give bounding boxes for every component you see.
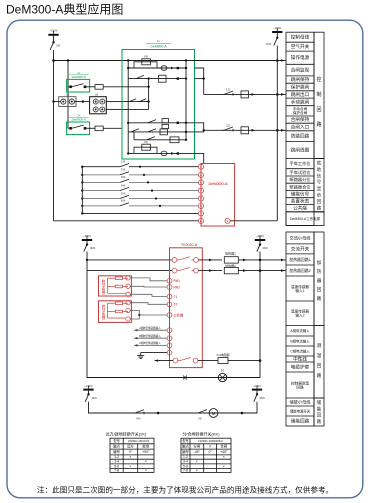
svg-text:5XK: 5XK — [121, 192, 126, 195]
contact + relays row D — [128, 122, 194, 124]
svg-text:中性线: 中性线 — [293, 356, 307, 363]
svg-text:LW39C-16D0404/3: LW39C-16D0404/3 — [198, 439, 223, 443]
node group: energy storage circuit — [314, 398, 324, 426]
svg-text:DK: DK — [57, 44, 61, 48]
relay contact K3 (resistor row) — [173, 358, 178, 363]
node group: heater circuit — [314, 232, 324, 325]
wire exit to red box — [195, 153, 204, 163]
svg-text:1-2: 1-2 — [114, 455, 119, 459]
svg-text:B相电流输入: B相电流输入 — [290, 339, 310, 344]
svg-text:型号: 型号 — [113, 438, 119, 443]
svg-text:控制母线: 控制母线 — [291, 34, 310, 41]
switch QF — [52, 41, 54, 43]
svg-text:3-4: 3-4 — [183, 460, 188, 464]
svg-text:储能电源开关: 储能电源开关 — [290, 409, 311, 414]
contacts row E — [128, 131, 194, 133]
ground — [140, 353, 142, 356]
svg-text:合闸保持: 合闸保持 — [291, 116, 310, 123]
svg-text:6XK: 6XK — [121, 200, 126, 203]
wire out left — [155, 360, 174, 362]
svg-text:分闸: 分闸 — [193, 444, 200, 449]
wire lamp row — [87, 376, 260, 378]
contact KM — [133, 412, 135, 414]
svg-text:就地: 就地 — [142, 444, 149, 449]
svg-text:1D: 1D — [66, 94, 69, 97]
svg-text:加热器回路1: 加热器回路1 — [289, 257, 311, 262]
svg-text:测: 测 — [317, 342, 322, 349]
svg-text:1B: 1B — [95, 94, 98, 97]
svg-text:编号: 编号 — [113, 449, 120, 454]
contacts row y101.6 — [122, 101, 149, 103]
svg-text:显: 显 — [317, 186, 322, 191]
svg-text:手车工作位: 手车工作位 — [290, 160, 311, 167]
pin 4 — [198, 188, 203, 193]
switch 3DK — [86, 243, 88, 245]
svg-text:触点: 触点 — [182, 444, 189, 449]
svg-text:分/合闸转换开关(KK): 分/合闸转换开关(KK) — [182, 430, 220, 436]
contact + coil row B — [128, 78, 186, 80]
svg-text:路: 路 — [317, 295, 322, 302]
relay row 2ZJ y130.3 — [204, 129, 278, 131]
wire: section2 left rail — [86, 252, 88, 377]
pin A-in — [167, 328, 172, 333]
svg-text:C相B型传感器输入: C相B型传感器输入 — [139, 341, 161, 345]
svg-text:2ZJ: 2ZJ — [226, 123, 231, 127]
wire sensor1 a — [130, 278, 167, 281]
svg-text:DeM300-A工作电源: DeM300-A工作电源 — [290, 216, 320, 221]
svg-text:编号: 编号 — [182, 449, 189, 454]
svg-text:×: × — [223, 455, 225, 459]
wire row y86.8 — [122, 86, 149, 88]
svg-text:公共端: 公共端 — [293, 205, 307, 212]
switch 2DK — [259, 243, 261, 245]
svg-text:电缆护套: 电缆护套 — [291, 364, 310, 371]
svg-text:KM: KM — [144, 56, 148, 59]
svg-text:防跳回路: 防跳回路 — [291, 133, 310, 140]
svg-text:D1: D1 — [221, 369, 225, 373]
wire stub right of green box (lower) — [195, 123, 204, 132]
wire — [53, 36, 55, 42]
svg-text:RH1: RH1 — [174, 279, 181, 283]
node terminal table 1 — [286, 32, 314, 225]
svg-text:控: 控 — [316, 76, 321, 83]
svg-text:路: 路 — [316, 121, 321, 128]
wire bundle vertical x82.3 — [81, 167, 83, 214]
wire: sub vertical x68 — [67, 61, 69, 129]
pin T1 — [167, 294, 172, 299]
svg-text:7-8: 7-8 — [183, 469, 188, 473]
node group: temperature circuit — [314, 325, 324, 398]
motor M — [209, 409, 218, 418]
contact S1 — [120, 164, 129, 167]
pin 6 — [198, 203, 203, 208]
wire row y109.4 — [122, 108, 149, 110]
svg-text:注：此图只是二次图的一部分，主要为了体现我公司产品的用途及接: 注：此图只是二次图的一部分，主要为了体现我公司产品的用途及接线方式，仅供参考。 — [37, 485, 333, 495]
switch 5DK — [256, 393, 258, 395]
wire branch x148.6 — [148, 79, 150, 110]
wire sensor2 a — [130, 303, 167, 305]
svg-text:合闸: 合闸 — [220, 444, 227, 449]
node: rail junction y60.5 — [52, 59, 55, 62]
wire motor line — [89, 402, 258, 413]
svg-text:C相电流输入: C相电流输入 — [290, 349, 310, 354]
wire stub right of green box (top) — [195, 68, 204, 94]
wire bundle row 7 — [81, 212, 83, 214]
svg-text:LW39C-16C04/2: LW39C-16C04/2 — [128, 439, 150, 443]
svg-text:触点: 触点 — [113, 444, 120, 449]
svg-text:+45°: +45° — [220, 450, 228, 454]
svg-text:断路器分位: 断路器分位 — [290, 176, 311, 183]
svg-text:手车试验位: 手车试验位 — [290, 169, 311, 176]
wire sensor2 b — [130, 310, 167, 315]
wire bundle row 2 — [81, 174, 83, 176]
pin COM — [167, 313, 172, 318]
svg-text:加热器回路2: 加热器回路2 — [289, 268, 311, 273]
svg-text:3-4: 3-4 — [114, 460, 119, 464]
wire heater row 2 — [87, 270, 172, 272]
contact S6 — [120, 203, 129, 206]
svg-text:×: × — [223, 464, 225, 468]
svg-text:跳闸线圈: 跳闸线圈 — [291, 146, 310, 153]
svg-text:1n: 1n — [157, 39, 161, 43]
node rail junction — [52, 100, 54, 102]
svg-text:-45°: -45° — [194, 450, 201, 454]
svg-text:温度传感器2: 温度传感器2 — [102, 305, 106, 321]
relay row 1ZJ y94.4 — [204, 93, 278, 95]
pin 9 — [225, 218, 230, 223]
wire y60.5 to green box — [54, 60, 129, 62]
svg-text:A相电流输入: A相电流输入 — [290, 328, 310, 333]
svg-text:断路器合位: 断路器合位 — [290, 183, 311, 190]
svg-text:加: 加 — [317, 259, 322, 266]
wire: section2 right rail — [259, 252, 261, 378]
svg-text:储: 储 — [317, 399, 322, 406]
wire top row to right rail — [195, 60, 278, 62]
svg-text:操作电源: 操作电源 — [291, 54, 310, 61]
wire: internal left rail — [127, 61, 129, 154]
svg-text:2DK: 2DK — [263, 246, 269, 250]
wire bundle row 1 — [81, 166, 83, 168]
sensor RT1 (red box) — [99, 276, 132, 296]
svg-text:0: 0 — [209, 445, 211, 449]
node group: local signal circuit — [314, 159, 324, 212]
resistor R3 — [198, 360, 218, 362]
svg-text:路: 路 — [317, 204, 322, 211]
svg-text:温度传感器1: 温度传感器1 — [102, 280, 106, 296]
svg-text:路: 路 — [317, 418, 322, 425]
svg-text:回路: 回路 — [296, 384, 304, 389]
contact S4 — [120, 187, 129, 190]
node terminal centers — [62, 101, 64, 103]
fuse FU2 — [86, 127, 95, 129]
wire sensor1 b — [130, 285, 167, 288]
svg-text:2n: 2n — [77, 113, 81, 117]
svg-text:交流开关: 交流开关 — [291, 245, 310, 252]
svg-text:M: M — [212, 411, 216, 416]
svg-text:×: × — [196, 460, 198, 464]
svg-text:型号: 型号 — [182, 438, 188, 443]
svg-text:DeM300-A: DeM300-A — [72, 118, 86, 122]
svg-text:温: 温 — [317, 352, 322, 359]
pin 5 — [198, 196, 203, 201]
wire busbar ticks — [53, 31, 55, 34]
pin B-in — [167, 336, 172, 341]
svg-text:4XK: 4XK — [121, 184, 126, 187]
wire bundle row 4 — [81, 189, 83, 191]
relay contact K2 (heater2) — [172, 268, 177, 273]
switch 4DK — [87, 393, 89, 395]
coil KM row A — [128, 67, 186, 69]
pin 8 — [198, 218, 203, 223]
svg-text:跳闸保持: 跳闸保持 — [291, 76, 310, 83]
svg-text:远方: 远方 — [127, 444, 134, 449]
svg-text:输入1: 输入1 — [295, 288, 304, 293]
svg-text:T1: T1 — [174, 295, 178, 299]
svg-text:3XK: 3XK — [121, 176, 126, 179]
wire: left rail — [53, 50, 55, 221]
contact S2 — [120, 172, 129, 175]
svg-text:合闸入口: 合闸入口 — [291, 124, 310, 131]
svg-text:TK2020-A: TK2020-A — [181, 243, 198, 247]
svg-text:A相B型传感器输入: A相B型传感器输入 — [139, 326, 161, 330]
svg-text:×: × — [129, 455, 131, 459]
svg-text:空气开关: 空气开关 — [291, 43, 310, 50]
svg-text:地: 地 — [317, 166, 322, 172]
svg-text:×: × — [145, 469, 147, 473]
svg-text:XK: XK — [198, 417, 202, 421]
wire heater row2 out — [198, 270, 222, 272]
sensor RT2 (red box) — [99, 301, 132, 323]
wire bundle row 3 — [81, 181, 83, 183]
svg-text:路: 路 — [317, 372, 322, 379]
pin T2 — [167, 302, 172, 307]
svg-text:DeM300-A: DeM300-A — [150, 45, 167, 49]
wire rows into green box — [106, 101, 122, 103]
svg-text:热: 热 — [317, 268, 322, 275]
pin RH1 — [167, 278, 172, 283]
device outline U2 DeM300-A (red box) — [201, 164, 235, 227]
relay contact K1 (heater1) — [172, 258, 177, 263]
svg-text:交流小母线: 交流小母线 — [290, 234, 312, 241]
svg-text:就: 就 — [317, 160, 322, 167]
svg-text:1-2: 1-2 — [183, 455, 188, 459]
contact XK — [196, 412, 198, 414]
svg-text:T2: T2 — [174, 303, 178, 307]
pin GND — [167, 350, 172, 355]
svg-text:保护跳闸: 保护跳闸 — [291, 84, 310, 91]
resistor row F — [134, 139, 186, 141]
wire bundle row 5 — [81, 197, 83, 199]
svg-text:RH2: RH2 — [174, 285, 181, 289]
svg-text:HQ: HQ — [144, 141, 148, 144]
svg-text:合闸监视: 合闸监视 — [291, 67, 310, 74]
svg-text:2×4电阻器: 2×4电阻器 — [216, 353, 229, 357]
svg-text:DeM300-A: DeM300-A — [208, 181, 227, 186]
svg-text:远方/就地转换开关(2K): 远方/就地转换开关(2K) — [106, 430, 147, 436]
pin 3 — [198, 180, 203, 185]
svg-text:B相B型传感器输入: B相B型传感器输入 — [139, 334, 161, 338]
svg-text:1n: 1n — [77, 71, 81, 75]
svg-text:储能回路: 储能回路 — [291, 418, 310, 425]
fuse FU1 — [86, 86, 95, 88]
svg-text:1DK: 1DK — [266, 42, 272, 46]
pin C-in — [167, 343, 172, 348]
svg-text:手动跳闸: 手动跳闸 — [291, 98, 310, 105]
svg-text:4DK: 4DK — [92, 396, 98, 400]
svg-text:7-8: 7-8 — [114, 469, 119, 473]
svg-text:保护合闸: 保护合闸 — [293, 110, 308, 115]
svg-text:×: × — [196, 469, 198, 473]
wire bundle row 6 — [81, 205, 83, 207]
svg-text:加热器1: 加热器1 — [225, 251, 236, 256]
svg-text:公共端: 公共端 — [174, 312, 184, 317]
pin 7 — [198, 211, 203, 216]
switch 1DK — [276, 37, 278, 39]
coil HQ row G — [128, 152, 194, 154]
svg-text:1ZJ: 1ZJ — [226, 88, 231, 92]
svg-text:示: 示 — [317, 193, 322, 198]
svg-text:5DK: 5DK — [260, 396, 266, 400]
pin 2 — [198, 172, 203, 177]
svg-text:回: 回 — [316, 107, 321, 113]
svg-text:+90°: +90° — [142, 450, 150, 454]
svg-text:×: × — [145, 460, 147, 464]
svg-text:1XK: 1XK — [121, 161, 126, 164]
node terminal table 2 — [286, 232, 314, 426]
wire heater row1 out — [198, 259, 222, 261]
svg-text:3DK: 3DK — [90, 246, 96, 250]
contact S5 — [120, 195, 129, 198]
svg-text:2XK: 2XK — [121, 169, 126, 172]
svg-text:DeM300-A: DeM300-A — [72, 75, 86, 79]
svg-text:DeM300-A典型应用图: DeM300-A典型应用图 — [6, 2, 123, 17]
wire: internal right rail — [185, 61, 187, 140]
svg-text:储能信号: 储能信号 — [291, 191, 310, 198]
pin 1 — [198, 164, 203, 169]
svg-text:储能小母线: 储能小母线 — [290, 399, 312, 406]
wire heater row 1 — [86, 259, 88, 261]
svg-text:制: 制 — [316, 91, 321, 98]
wire bottom return y220.8 — [54, 220, 199, 222]
svg-text:KM: KM — [136, 417, 141, 421]
svg-text:能: 能 — [317, 405, 322, 412]
svg-text:输入2: 输入2 — [295, 313, 304, 318]
wire row y60.5 crossing — [128, 60, 194, 62]
node group: control circuit — [314, 32, 324, 158]
wire sensor2 c — [130, 315, 139, 319]
svg-text:信: 信 — [317, 172, 322, 179]
svg-text:×: × — [129, 464, 131, 468]
svg-text:跳闸出口: 跳闸出口 — [291, 91, 310, 98]
contact S3 — [120, 179, 129, 182]
wire: right rail — [276, 46, 278, 221]
svg-text:装置状态: 装置状态 — [291, 198, 310, 205]
wire sensor1 c — [130, 294, 167, 296]
pin RH2 — [167, 285, 172, 290]
